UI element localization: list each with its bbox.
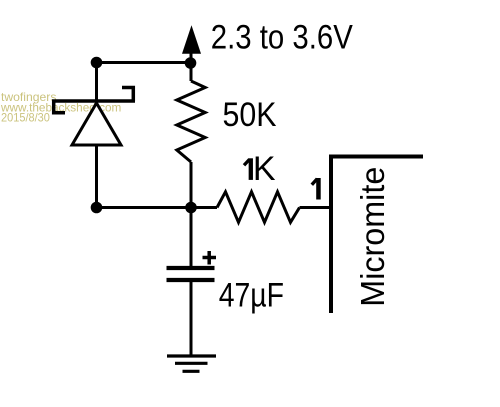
svg-text:2015/8/30: 2015/8/30 <box>1 112 50 125</box>
resistor R2 value label 1K : digit 1 flag <box>244 159 250 165</box>
capacitor C1 plus sign horizontal <box>203 256 217 260</box>
resistor R2 value label 1K : digit 1 stem <box>249 158 253 180</box>
wire to 1K <box>191 206 217 209</box>
resistor R2 1K zigzag <box>217 192 300 223</box>
wire left vertical lower <box>95 145 98 208</box>
capacitor C1 bottom plate <box>167 278 215 282</box>
svg-text:Micromite: Micromite <box>354 167 391 307</box>
node junction dot bottom-right <box>185 202 197 214</box>
wire capacitor to ground <box>190 282 193 356</box>
pin number 1 : flag <box>312 179 317 185</box>
zener diode D1 cathode bar <box>52 99 135 103</box>
node junction dot top-left <box>91 57 103 69</box>
zener left hook <box>54 101 65 113</box>
pin number 1 : stem <box>316 178 321 200</box>
Micromite U1 top edge line <box>329 155 423 159</box>
wire left vertical upper <box>95 63 98 101</box>
capacitor C1 plus sign vertical <box>207 251 211 265</box>
node junction dot bottom-left <box>91 202 103 214</box>
zener diode D1 triangle <box>72 103 121 145</box>
svg-text:K: K <box>253 150 276 188</box>
ground bar 3 <box>183 370 200 373</box>
Micromite U1 left edge line <box>329 155 333 314</box>
ground bar 2 <box>175 362 208 365</box>
capacitor C1 top plate <box>167 266 215 270</box>
wire below top dot <box>190 63 193 81</box>
svg-text:2.3 to 3.6V: 2.3 to 3.6V <box>211 18 353 56</box>
wire below 50K <box>190 162 193 208</box>
wire middle horizontal <box>97 206 192 209</box>
svg-text:50K: 50K <box>223 96 277 134</box>
power arrow (supply symbol) <box>182 25 201 54</box>
node junction dot top-right <box>185 57 197 69</box>
ground bar 1 <box>167 354 216 357</box>
wire top horizontal <box>97 61 192 64</box>
wire 1K to pin <box>300 206 330 209</box>
wire arrow stem <box>190 52 193 63</box>
svg-text:47µF: 47µF <box>219 277 284 315</box>
zener right hook <box>122 88 133 102</box>
wire dot to capacitor <box>190 208 193 267</box>
resistor R1 50K zigzag <box>177 81 205 162</box>
